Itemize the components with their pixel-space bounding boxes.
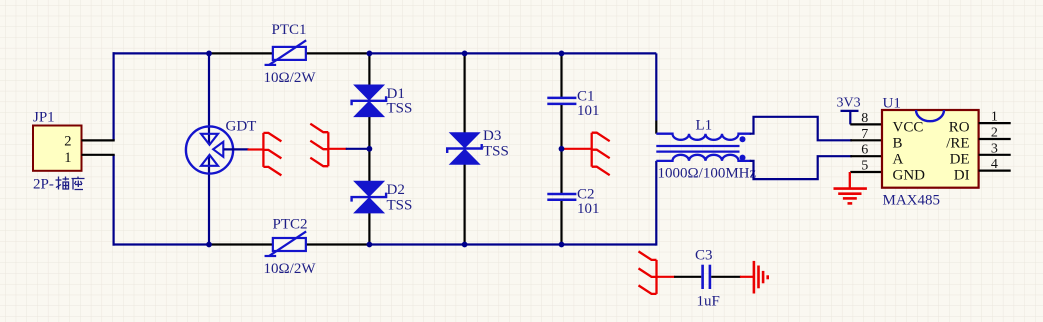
capacitor C3 [701, 265, 704, 289]
thermistor PTC1 [273, 47, 306, 60]
capacitor C1 [547, 97, 576, 100]
L1 lower winding [656, 155, 751, 161]
wire: left vertical upper (blue) [112, 52, 114, 140]
choke left vertical upper (blue) [655, 53, 657, 120]
wire red from earth to C3 [657, 276, 676, 278]
svg-text:RO: RO [949, 120, 970, 136]
U1 pin 2 stub [979, 138, 1011, 140]
U1 pin 1 stub [979, 122, 1011, 124]
svg-text:D1: D1 [387, 86, 405, 102]
svg-text:2: 2 [991, 126, 998, 141]
svg-text:D3: D3 [483, 128, 501, 144]
svg-text:GND: GND [893, 167, 926, 183]
middle junction wire red to earth [328, 148, 347, 150]
svg-text:VCC: VCC [893, 120, 924, 136]
earth ground left of C3 [655, 260, 657, 294]
svg-text:MAX485: MAX485 [883, 193, 941, 209]
earth ground (GDT electrode) [262, 133, 264, 167]
svg-text:5: 5 [861, 159, 868, 174]
op-amp/IC U1 MAX485 body [882, 110, 979, 188]
junction dots on rails [206, 51, 212, 57]
top rail left (blue) [113, 52, 210, 54]
svg-text:/RE: /RE [946, 136, 969, 152]
svg-text:7: 7 [861, 127, 868, 142]
svg-text:3: 3 [991, 141, 998, 156]
TVS diode D1 [353, 85, 385, 101]
U1 pin 3 stub [979, 154, 1011, 156]
svg-text:C3: C3 [695, 248, 713, 264]
capacitor C2 [547, 193, 576, 196]
svg-text:B: B [893, 136, 903, 152]
middle junction wire blue [346, 148, 370, 150]
power ground (C3 right) [753, 261, 756, 294]
U1 pin 8 stub [850, 123, 882, 125]
JP1 pin 2 wire [82, 139, 115, 141]
wire red to power ground [740, 276, 754, 278]
wire black to C3 left plate [674, 276, 701, 278]
svg-text:DE: DE [950, 151, 970, 167]
ground GND at U1 pin 5 [849, 172, 851, 189]
L1 polarity dot lower [740, 155, 746, 161]
U1 pin 5 stub [850, 171, 882, 173]
svg-text:3V3: 3V3 [837, 96, 861, 111]
wire: top rail PTC1 to D1 column (black) [306, 52, 370, 54]
wire: bottom rail GDT to PTC2 (black) [209, 243, 273, 245]
svg-text:D2: D2 [387, 182, 405, 198]
svg-text:101: 101 [577, 201, 600, 217]
C1/C2 column wire segments (black) [560, 53, 562, 97]
CJK glyph 座 [72, 177, 85, 190]
svg-text:C2: C2 [577, 186, 595, 202]
wire black from C3 right plate [711, 276, 741, 278]
GDT vertical wire upper [208, 53, 210, 143]
choke left vertical lower (blue) [655, 161, 657, 246]
wire: bottom rail right (blue) [369, 243, 656, 245]
choke left vertical upper stub (black) [655, 121, 657, 134]
earth ground (between D1 and D2) [327, 132, 329, 166]
svg-text:10Ω/2W: 10Ω/2W [264, 261, 317, 277]
common-mode choke L1 upper winding [656, 134, 751, 140]
TVS diode D3 [449, 132, 481, 148]
svg-text:1uF: 1uF [697, 294, 720, 310]
D3 column wire (black) [464, 53, 466, 244]
svg-text:8: 8 [861, 111, 868, 126]
thermistor PTC2 [273, 238, 306, 251]
U1 notch [916, 110, 944, 121]
U1 pin 6 stub [850, 155, 882, 157]
power port 3V3 [841, 110, 859, 112]
junction dot C column middle [559, 146, 565, 152]
svg-text:1: 1 [991, 110, 998, 125]
svg-text:6: 6 [861, 143, 868, 158]
svg-text:2P-: 2P- [33, 177, 54, 193]
svg-text:101: 101 [577, 103, 600, 119]
D1/D2 column wire (black) [368, 53, 370, 244]
wire: upper crossover to U1 pin 7 (blue) [750, 117, 852, 141]
TVS diode D2 [353, 181, 385, 197]
svg-text:PTC1: PTC1 [272, 22, 307, 38]
wire: bottom rail left (blue) [113, 243, 210, 245]
U1 pin 4 stub [979, 170, 1011, 172]
junction dot D1/D2 middle [367, 146, 373, 152]
svg-text:2: 2 [64, 133, 71, 149]
connector JP1 [33, 126, 82, 171]
svg-text:A: A [893, 151, 904, 167]
JP1 pin 1 wire [82, 154, 115, 156]
svg-text:1: 1 [64, 150, 71, 166]
svg-text:TSS: TSS [387, 101, 413, 117]
svg-text:10Ω/2W: 10Ω/2W [264, 70, 317, 86]
GDT electrode wire (blue) [224, 148, 249, 150]
svg-text:TSS: TSS [483, 143, 509, 159]
svg-text:TSS: TSS [387, 198, 413, 214]
svg-text:1000Ω/100MHz: 1000Ω/100MHz [658, 166, 757, 182]
L1 polarity dot upper [740, 136, 746, 142]
svg-text:L1: L1 [696, 118, 713, 134]
gas discharge tube GDT [186, 126, 233, 173]
wire red to earth at C1/C2 junction [563, 148, 592, 150]
svg-text:JP1: JP1 [33, 110, 55, 126]
wire: top rail GDT to PTC1 (black) [209, 52, 273, 54]
svg-text:C1: C1 [577, 88, 595, 104]
wire: lower crossover to U1 pin 6 (blue) [750, 156, 852, 179]
CJK glyph 插 [56, 177, 70, 190]
svg-text:DI: DI [954, 167, 970, 183]
svg-text:PTC2: PTC2 [273, 217, 308, 233]
GDT vertical wire lower [208, 156, 210, 245]
U1 pin 7 stub [850, 139, 882, 141]
svg-text:4: 4 [991, 157, 998, 172]
wire: bottom rail PTC2 to D2 column (black) [306, 243, 370, 245]
wire: left vertical lower (blue) [112, 155, 114, 246]
svg-text:U1: U1 [883, 96, 901, 112]
earth ground (C1/C2 junction) [591, 133, 593, 167]
svg-text:GDT: GDT [226, 119, 257, 135]
wire: top rail right (blue) [369, 52, 656, 54]
GDT electrode wire (red) [248, 148, 264, 150]
L1 core bars [656, 145, 739, 147]
